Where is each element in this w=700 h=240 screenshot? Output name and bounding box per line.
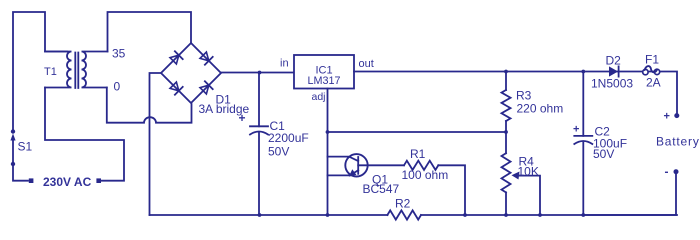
svg-text:in: in xyxy=(280,58,289,70)
node battery minus terminal xyxy=(674,169,679,174)
resistor R1 xyxy=(404,161,438,170)
node adj vertical at ground rail xyxy=(326,213,330,217)
svg-text:LM317: LM317 xyxy=(307,75,340,87)
resistor R3 xyxy=(502,72,511,133)
wire adj junction to R3/R4 junction xyxy=(328,131,507,133)
wire LM317 out rail to battery plus corner xyxy=(354,72,677,114)
svg-text:2200uF: 2200uF xyxy=(268,131,309,145)
svg-text:out: out xyxy=(359,58,374,70)
diode D2 xyxy=(609,66,619,76)
R4 wiper arrow xyxy=(512,172,541,216)
bridge diode bottom-right xyxy=(200,81,213,94)
svg-text:BC547: BC547 xyxy=(363,182,400,196)
svg-text:10K: 10K xyxy=(518,165,539,179)
switch S1 xyxy=(10,129,15,166)
node C2 bottom xyxy=(581,213,585,217)
svg-text:R1: R1 xyxy=(410,147,426,161)
transformer T1 core xyxy=(75,53,78,89)
bridge diode top-right xyxy=(200,52,213,65)
svg-text:1N5003: 1N5003 xyxy=(591,77,633,91)
svg-text:R2: R2 xyxy=(395,197,411,211)
AC terminal square left xyxy=(29,178,34,183)
wire R1 right down to ground rail xyxy=(438,165,465,215)
wire bridge right vertex to LM317 in xyxy=(221,72,294,74)
svg-text:2A: 2A xyxy=(646,76,661,90)
wire battery minus to ground rail xyxy=(583,172,676,215)
AC terminal square right xyxy=(96,178,101,183)
bridge diode top-left xyxy=(170,51,183,64)
svg-text:S1: S1 xyxy=(18,140,33,154)
wire mains left: S1 top up, across, down to primary top xyxy=(13,12,67,129)
transformer T1 secondary winding xyxy=(82,52,108,88)
node battery plus terminal xyxy=(674,113,679,118)
svg-text:adj: adj xyxy=(312,91,326,103)
fuse F1 xyxy=(643,66,660,75)
wire secondary top to bridge top vertex xyxy=(108,12,192,52)
svg-text:+: + xyxy=(573,124,579,136)
node C1 bottom xyxy=(258,213,262,217)
op-amp U1: IC1 LM317 regulator box xyxy=(294,55,354,89)
bridge D1 diamond xyxy=(161,43,221,103)
wire S1 bottom to AC left terminal xyxy=(13,166,28,181)
wire bridge left vertex down to ground rail xyxy=(150,73,162,215)
svg-text:D2: D2 xyxy=(606,54,622,68)
svg-text:100 ohm: 100 ohm xyxy=(402,168,449,182)
transformer T1 primary winding xyxy=(45,52,72,88)
svg-text:35: 35 xyxy=(112,47,126,61)
node adj junction xyxy=(326,130,330,134)
capacitor C1 xyxy=(250,73,268,216)
ground rail left section xyxy=(150,214,388,216)
node R4 bottom at rail xyxy=(504,213,508,217)
ground rail right section xyxy=(421,214,677,216)
bridge diode bottom-left xyxy=(170,82,183,95)
svg-text:T1: T1 xyxy=(44,66,57,78)
node C1 top xyxy=(258,71,262,75)
svg-text:+: + xyxy=(664,111,670,123)
svg-text:50V: 50V xyxy=(593,147,614,161)
wire secondary 0 to bridge bottom vertex (with hop over vertical) xyxy=(107,88,192,123)
capacitor C2 xyxy=(574,72,592,216)
svg-text:R3: R3 xyxy=(516,89,532,103)
svg-text:220 ohm: 220 ohm xyxy=(517,102,564,116)
node R4 wiper at rail xyxy=(538,213,542,217)
svg-text:-: - xyxy=(665,165,669,179)
node R3/R4 junction xyxy=(504,130,508,134)
svg-text:50V: 50V xyxy=(268,145,289,159)
transistor Q1 xyxy=(328,154,405,177)
wire LM317 adj down to ground rail xyxy=(327,89,329,216)
node out rail C2/D2 xyxy=(581,70,585,74)
svg-text:230V AC: 230V AC xyxy=(43,175,92,189)
svg-text:Battery: Battery xyxy=(656,135,700,149)
wire AC right terminal to primary bottom xyxy=(45,88,124,181)
resistor R4 potentiometer xyxy=(502,132,511,215)
resistor R2 xyxy=(387,210,421,219)
node out rail R3 xyxy=(504,70,508,74)
svg-text:F1: F1 xyxy=(645,53,659,67)
svg-text:+: + xyxy=(239,111,246,125)
svg-text:0: 0 xyxy=(114,80,121,94)
node R1 at ground rail xyxy=(463,213,467,217)
